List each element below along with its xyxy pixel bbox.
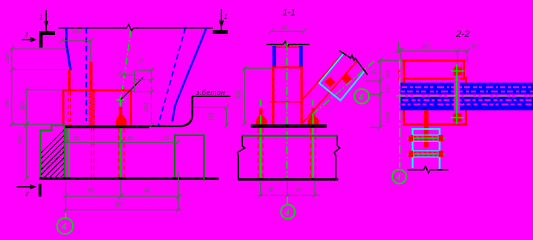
svg-text:1050: 1050 [386, 112, 392, 123]
svg-text:25: 25 [116, 71, 123, 76]
svg-text:50: 50 [472, 45, 479, 51]
svg-text:100: 100 [72, 30, 82, 36]
svg-text:30: 30 [281, 26, 288, 32]
svg-text:55: 55 [144, 189, 151, 195]
svg-text:4: 4 [359, 93, 364, 102]
svg-text:45°: 45° [371, 71, 379, 77]
svg-text:30: 30 [268, 188, 275, 194]
svg-text:350: 350 [144, 102, 150, 112]
svg-text:150: 150 [5, 53, 11, 63]
svg-text:4: 4 [285, 208, 290, 217]
svg-text:30: 30 [296, 188, 303, 194]
svg-text:1: 1 [39, 15, 43, 22]
svg-text:2: 2 [24, 33, 28, 39]
svg-text:1-1: 1-1 [283, 8, 296, 18]
svg-text:500: 500 [18, 134, 24, 144]
svg-text:550: 550 [237, 89, 243, 99]
svg-text:2-2: 2-2 [455, 29, 470, 40]
svg-text:20: 20 [137, 59, 144, 65]
svg-text:2: 2 [25, 192, 29, 198]
svg-text:130: 130 [386, 85, 392, 94]
svg-text:25: 25 [163, 136, 170, 142]
svg-text:257: 257 [421, 45, 432, 51]
svg-text:550: 550 [5, 98, 11, 108]
svg-text:50: 50 [128, 136, 134, 142]
svg-text:4: 4 [396, 173, 401, 182]
svg-text:з.бетон: з.бетон [195, 89, 225, 97]
svg-text:1: 1 [224, 14, 228, 21]
svg-text:150: 150 [209, 112, 215, 121]
svg-text:25: 25 [73, 136, 80, 142]
svg-text:550: 550 [115, 203, 125, 209]
svg-text:4: 4 [62, 222, 67, 232]
svg-text:250: 250 [386, 70, 392, 80]
svg-text:55: 55 [88, 189, 95, 195]
svg-text:350: 350 [21, 100, 27, 110]
